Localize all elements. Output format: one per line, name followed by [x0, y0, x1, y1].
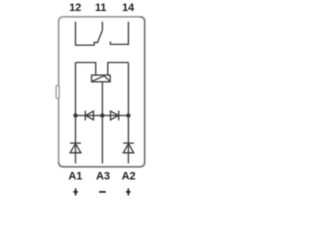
- relay coil: [92, 75, 111, 82]
- svg-text:A2: A2: [122, 171, 136, 183]
- diode D3 (A1 branch, cathode up): [70, 143, 81, 153]
- wire A2 conductor: [127, 63, 129, 164]
- svg-text:12: 12: [69, 2, 81, 14]
- node junction A1 bus: [73, 113, 77, 117]
- relay module body outline: [59, 17, 140, 162]
- polarity plus A1: [73, 188, 78, 195]
- polarity minus A3: [99, 191, 106, 193]
- diode D1 (bus, cathode left): [85, 111, 93, 121]
- wire coil feed right: [108, 63, 129, 76]
- svg-text:11: 11: [95, 2, 106, 14]
- contact movable arm (pole 11): [97, 30, 102, 43]
- wire coil feed left: [76, 63, 96, 76]
- pin 14 lead with NO fixed contact: [110, 22, 128, 45]
- coil polarity chevron: [92, 76, 110, 82]
- svg-text:A1: A1: [68, 171, 82, 183]
- side latch tab: [56, 86, 59, 99]
- svg-text:A3: A3: [96, 171, 110, 183]
- node junction A3 bus: [100, 113, 104, 117]
- polarity plus A2: [126, 188, 131, 195]
- svg-text:14: 14: [122, 2, 134, 14]
- wire diode bus: [76, 115, 129, 117]
- pin 11 lead: [101, 22, 103, 31]
- diode D4 (A2 branch, cathode up): [123, 143, 134, 153]
- node junction A2 bus: [126, 113, 130, 117]
- diode D2 (bus, cathode right): [111, 111, 119, 121]
- pin 12 lead with NC fixed contact: [76, 22, 98, 45]
- wire A1 conductor: [75, 63, 77, 164]
- wire coil to A3: [101, 82, 103, 164]
